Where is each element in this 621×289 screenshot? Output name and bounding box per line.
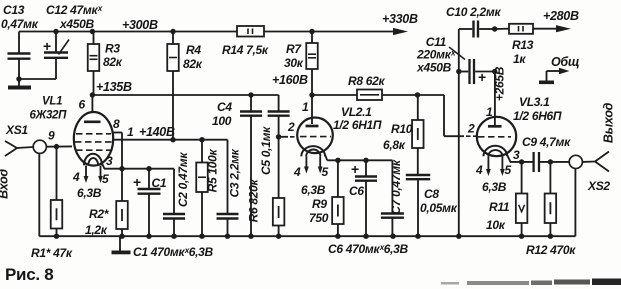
resistor R3 82k (88, 32, 123, 96)
connector XS2 contact circle (569, 155, 582, 168)
wire VL2 cathode lead (325, 155, 327, 161)
wire +300V top rail (19, 31, 312, 33)
node rail junctions middle (335, 234, 461, 239)
VL2 heater pin 4 arrow (293, 156, 309, 179)
svg-text:6: 6 (79, 98, 86, 112)
tube VL2.1 half 6N1P envelope (297, 118, 333, 154)
wire node A to VL3 grid (418, 95, 477, 136)
svg-text:R10: R10 (391, 122, 413, 136)
wire ground bottom rail (39, 235, 575, 237)
VL1 cathode inner arc (88, 158, 98, 165)
node C1 top junction (146, 166, 151, 171)
node C11 left junction (456, 69, 461, 74)
tube VL3.1 half 6N6P envelope (477, 117, 516, 156)
resistor R5 100k (196, 140, 219, 237)
svg-text:6,3В: 6,3В (301, 183, 326, 197)
svg-text:1,2к: 1,2к (85, 223, 108, 237)
svg-text:5: 5 (322, 165, 329, 179)
svg-text:+280В: +280В (543, 9, 579, 23)
node VL2 grid junction (276, 134, 281, 139)
svg-text:0,05мк: 0,05мк (420, 201, 458, 215)
svg-text:C10 2,2мк: C10 2,2мк (446, 5, 502, 19)
VL2 cathode arc (301, 146, 325, 156)
capacitor C2 0,47mk (163, 152, 190, 237)
svg-text:R14 7,5к: R14 7,5к (222, 43, 269, 57)
svg-text:Общ: Общ (551, 55, 579, 69)
node A junction R8/R10/grid (415, 92, 420, 97)
resistor R13 1k (495, 24, 571, 66)
wire VL2 anode lead (311, 95, 313, 124)
svg-text:1: 1 (127, 125, 134, 139)
svg-text:1/2 6Н6П: 1/2 6Н6П (513, 109, 562, 123)
svg-text:R11: R11 (489, 200, 510, 214)
VL3 cathode arc (484, 146, 508, 156)
VL1 heater pin 5 arrow (98, 166, 109, 187)
capacitor C3 2,2mk (217, 140, 242, 237)
svg-text:R12 470к: R12 470к (526, 243, 576, 257)
svg-text:4: 4 (293, 165, 301, 179)
svg-text:220мкˣ: 220мкˣ (416, 48, 456, 62)
node R5 top junction (199, 137, 204, 142)
capacitor C4 100 (212, 95, 262, 236)
svg-text:R6 820к: R6 820к (247, 178, 261, 222)
capacitor C8 0,05mk (406, 175, 458, 236)
resistor R10 6,8k (383, 95, 424, 175)
node C4 top junction (248, 92, 253, 97)
svg-text:C1: C1 (152, 176, 167, 190)
svg-text:750: 750 (309, 211, 329, 225)
page fragment bottom right (441, 279, 621, 286)
svg-text:+: + (133, 174, 141, 190)
VL2 heater pin 5 arrow (318, 156, 329, 179)
capacitor C5 0,1mk coupling (259, 95, 290, 198)
VL2 anode bar (306, 125, 319, 128)
svg-text:R4: R4 (186, 43, 201, 57)
svg-text:6,3В: 6,3В (482, 180, 507, 194)
svg-text:VL2.1: VL2.1 (341, 105, 372, 119)
wire C10 C11 ground drop (458, 29, 460, 236)
svg-text:C9 4,7мк: C9 4,7мк (522, 135, 571, 149)
svg-text:3: 3 (106, 154, 113, 168)
wire +330V rail segment with arrow (312, 28, 408, 35)
wire VL1 anode lead pin 6 (91, 95, 93, 113)
svg-text:R1* 47к: R1* 47к (31, 246, 73, 260)
wire VL2 cathode line (327, 159, 392, 161)
svg-text:R9: R9 (312, 197, 327, 211)
terminal Obshch common (539, 55, 579, 84)
resistor R8 62k (312, 74, 418, 100)
svg-text:+135В: +135В (96, 80, 132, 94)
svg-text:C13: C13 (3, 3, 25, 17)
svg-text:+265В: +265В (493, 66, 507, 101)
svg-text:VL1: VL1 (42, 96, 62, 108)
node R12 junction (548, 159, 553, 164)
node C6 junction (363, 158, 368, 163)
resistor R2* 1,2k cathode (85, 169, 128, 237)
VL2 grid dashed line (300, 136, 331, 138)
svg-text:С6 470мкˣ6,3В: С6 470мкˣ6,3В (328, 242, 409, 256)
svg-text:1: 1 (302, 100, 309, 114)
capacitor C11 220mk x450V electrolytic (416, 35, 495, 85)
svg-text:+300В: +300В (122, 18, 158, 32)
svg-text:10к: 10к (486, 218, 506, 232)
resistor R12 470k (545, 162, 557, 236)
VL1 cathode arc (84, 154, 102, 166)
svg-text:8: 8 (113, 117, 120, 131)
node R4 top junction (170, 29, 175, 34)
VL1 grid dashed lines (75, 134, 112, 150)
node rail junctions left (54, 234, 281, 239)
node ground junction (16, 76, 21, 81)
svg-text:R3: R3 (105, 42, 120, 56)
node rail junctions right (519, 234, 553, 239)
svg-text:C1 470мкˣ6,3В: C1 470мкˣ6,3В (133, 245, 214, 259)
svg-text:82к: 82к (103, 55, 123, 69)
svg-text:VL3.1: VL3.1 (519, 95, 550, 109)
resistor R7 30k (284, 32, 318, 96)
svg-text:3: 3 (513, 148, 520, 162)
svg-text:Рис. 8: Рис. 8 (5, 265, 53, 284)
capacitor C9 4,7mk coupling (522, 135, 571, 172)
svg-text:5: 5 (505, 163, 512, 177)
node R4 bottom junction (170, 137, 175, 142)
VL3 grid dashed line (478, 136, 511, 138)
svg-text:4: 4 (475, 163, 483, 177)
wire VL1 anode pin 1 line (113, 139, 228, 141)
node R9 junction (335, 158, 340, 163)
wire grid pin 9 input (46, 145, 72, 147)
wire VL3 cathode line (510, 161, 570, 163)
node C11 VL3 anode junction (492, 69, 497, 74)
svg-text:R8 62к: R8 62к (348, 74, 386, 88)
wire screen line +135V (92, 94, 278, 96)
resistor R11 10k (486, 162, 527, 236)
VL3 anode bar (488, 125, 502, 128)
svg-text:C2 0,47мк: C2 0,47мк (176, 152, 190, 208)
svg-text:C4: C4 (217, 100, 232, 114)
svg-text:0,47мк: 0,47мк (1, 17, 39, 31)
svg-text:Вход: Вход (0, 169, 11, 199)
wire C13-C12 bottom link (19, 78, 56, 80)
wire VL1 cathode lead (102, 164, 105, 169)
resistor R14 7,5k (222, 26, 269, 57)
svg-text:C12 47мкˣ: C12 47мкˣ (46, 3, 103, 17)
svg-text:х450В: х450В (59, 17, 94, 31)
svg-text:C6: C6 (349, 184, 364, 198)
svg-text:XS1: XS1 (5, 123, 28, 137)
node R1 top junction (54, 144, 59, 149)
svg-text:C8: C8 (424, 187, 439, 201)
resistor R9 750 cathode (309, 160, 344, 236)
svg-text:C5 0,1мк: C5 0,1мк (259, 126, 273, 175)
svg-text:1к: 1к (513, 52, 526, 66)
ground chassis bottom symbol (112, 236, 131, 254)
node R7 top junction (309, 29, 314, 34)
capacitor C6 470mk electrolytic (349, 160, 377, 236)
VL1 heater pin 4 arrow (72, 166, 88, 185)
resistor R6 820k grid leak (247, 178, 285, 236)
capacitor C1 470mk electrolytic (133, 169, 167, 237)
svg-text:2: 2 (287, 120, 295, 134)
svg-text:XS2: XS2 (587, 179, 610, 193)
connector XS2 jack chevron (582, 152, 609, 172)
wire VL1 cathode line (104, 168, 174, 170)
svg-text:+140В: +140В (139, 125, 175, 139)
svg-text:C3 2,2мк: C3 2,2мк (228, 148, 242, 197)
VL3 heater pin 5 arrow (500, 156, 512, 177)
svg-text:30к: 30к (284, 56, 304, 70)
svg-text:100: 100 (212, 114, 232, 128)
svg-text:R2*: R2* (89, 207, 110, 221)
wire VL3 anode lead (494, 72, 496, 126)
capacitor C10 2,2mk (446, 5, 502, 38)
svg-text:2: 2 (467, 122, 475, 136)
node R3 top junction (90, 29, 95, 34)
svg-text:+160В: +160В (272, 73, 308, 87)
capacitor C12 47mk x450V electrolytic (43, 3, 103, 79)
svg-text:х450В: х450В (416, 61, 451, 75)
wire grid to VL2 pin 2 dashed (279, 136, 298, 138)
node R3 bottom junction (90, 92, 95, 97)
svg-text:9: 9 (48, 129, 55, 143)
svg-text:6,8к: 6,8к (383, 138, 406, 152)
svg-text:Выход: Выход (602, 102, 616, 143)
svg-text:6Ж32П: 6Ж32П (30, 110, 68, 122)
svg-text:R5 100к: R5 100к (206, 148, 220, 192)
connector XS1 contact circle (33, 140, 46, 153)
node R2 cathode junction (119, 166, 124, 171)
svg-text:+330В: +330В (382, 12, 418, 26)
wire pin 8 stub to cathode (112, 133, 123, 169)
node R13 C10 junction (492, 26, 497, 31)
svg-text:C7 0,47мк: C7 0,47мк (389, 159, 403, 215)
svg-text:1/2 6Н1П: 1/2 6Н1П (333, 118, 382, 132)
capacitor C7 0,47mk (381, 159, 404, 236)
node R7 bottom junction VL2 anode (309, 92, 314, 97)
svg-text:82к: 82к (183, 57, 203, 71)
svg-text:5: 5 (102, 172, 109, 186)
svg-text:R7: R7 (286, 42, 302, 56)
svg-text:4: 4 (72, 170, 80, 184)
VL1 anode bar (84, 120, 101, 123)
svg-text:+: + (351, 161, 359, 177)
connector XS1 jack chevron (5, 141, 33, 156)
node R11 junction (519, 159, 524, 164)
ground chassis top-left (8, 79, 31, 90)
capacitor C13 0,47mk (1, 3, 39, 79)
svg-text:R13: R13 (512, 38, 534, 52)
node C12 top junction (53, 29, 58, 34)
VL3 cathode inner arc (488, 150, 502, 156)
resistor R1* 47k (31, 147, 73, 260)
VL2 cathode inner arc (306, 149, 320, 156)
wire VL3 cathode lead (507, 155, 510, 162)
resistor R4 82k (167, 32, 202, 140)
svg-text:6,3В: 6,3В (77, 186, 102, 200)
wire XS2 ground drop (574, 169, 576, 237)
VL3 heater pin 4 arrow (475, 156, 491, 177)
wire XS1 ground drop (38, 153, 40, 236)
tube VL1 6Zh32P envelope (74, 112, 113, 166)
